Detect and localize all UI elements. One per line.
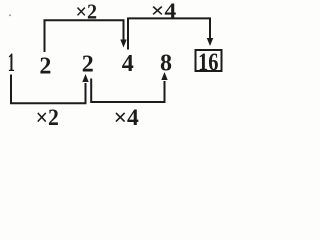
svg-text:4: 4 [122, 51, 134, 77]
svg-text:×2: ×2 [76, 0, 98, 24]
svg-text:2: 2 [82, 52, 94, 78]
svg-text:16: 16 [198, 49, 219, 76]
svg-text:1: 1 [8, 48, 15, 77]
svg-text:2: 2 [39, 53, 51, 79]
svg-text:×2: ×2 [36, 105, 59, 129]
svg-text:×4: ×4 [114, 105, 140, 129]
svg-text:×4: ×4 [151, 0, 177, 23]
svg-text:8: 8 [160, 50, 172, 76]
